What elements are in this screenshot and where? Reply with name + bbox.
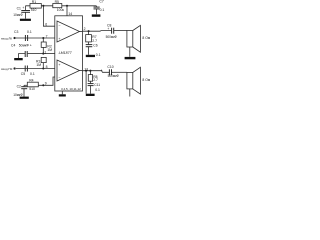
svg-text:−: − <box>58 24 60 28</box>
svg-text:C4: C4 <box>11 43 15 47</box>
svg-text:10мкФ: 10мкФ <box>13 93 23 97</box>
svg-text:0.1: 0.1 <box>96 53 101 57</box>
svg-text:−: − <box>58 75 60 79</box>
svg-text:R4: R4 <box>29 78 33 82</box>
svg-text:14: 14 <box>68 12 72 16</box>
svg-text:9: 9 <box>45 82 47 86</box>
svg-text:+: + <box>22 6 24 10</box>
svg-text:1М: 1М <box>36 63 41 67</box>
svg-text:0.1: 0.1 <box>30 72 35 76</box>
svg-text:8: 8 <box>46 65 48 69</box>
svg-text:C7: C7 <box>99 0 103 3</box>
svg-text:0.1: 0.1 <box>95 88 100 92</box>
svg-text:2.7: 2.7 <box>93 78 98 82</box>
svg-text:вход ПК: вход ПК <box>1 67 12 71</box>
svg-text:100к: 100к <box>57 8 65 12</box>
svg-text:0.1: 0.1 <box>100 8 105 12</box>
svg-text:+: + <box>58 37 60 41</box>
svg-text:1: 1 <box>44 50 46 54</box>
svg-text:C10: C10 <box>107 65 113 69</box>
svg-text:500мкФ: 500мкФ <box>106 35 118 39</box>
svg-text:вход ЛК: вход ЛК <box>1 36 12 40</box>
svg-text:+: + <box>30 43 32 47</box>
svg-text:2.7: 2.7 <box>92 39 97 43</box>
svg-text:C3: C3 <box>14 30 18 34</box>
svg-text:C11: C11 <box>94 83 100 87</box>
svg-text:1М: 1М <box>47 48 52 52</box>
svg-text:6: 6 <box>45 23 47 27</box>
svg-text:50мкФ: 50мкФ <box>19 43 30 47</box>
svg-text:LM1877: LM1877 <box>59 51 73 55</box>
svg-text:C6: C6 <box>93 44 97 48</box>
svg-text:C5: C5 <box>21 72 25 76</box>
svg-text:+: + <box>101 68 103 72</box>
svg-text:+: + <box>58 63 60 67</box>
svg-text:7: 7 <box>46 35 48 39</box>
svg-text:C2: C2 <box>17 85 21 89</box>
svg-text:510: 510 <box>31 8 37 12</box>
svg-text:0.1: 0.1 <box>27 30 32 34</box>
svg-text:C1: C1 <box>17 6 21 10</box>
svg-text:510: 510 <box>29 87 35 91</box>
svg-text:500мкФ: 500мкФ <box>108 74 120 78</box>
svg-text:R1: R1 <box>32 0 36 4</box>
svg-text:8 Ом: 8 Ом <box>142 36 150 40</box>
svg-text:10мкФ: 10мкФ <box>13 13 23 17</box>
svg-text:R5: R5 <box>55 0 59 4</box>
svg-text:13: 13 <box>84 67 88 71</box>
svg-text:3,4,5, 10,11,12: 3,4,5, 10,11,12 <box>61 87 81 91</box>
svg-text:2: 2 <box>84 27 86 31</box>
svg-text:+: + <box>107 27 109 31</box>
svg-text:8 Ом: 8 Ом <box>142 78 150 82</box>
